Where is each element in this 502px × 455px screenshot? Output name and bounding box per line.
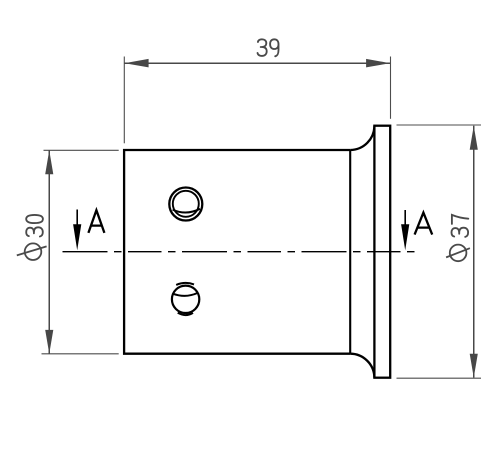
flange rectangle [374, 126, 390, 378]
tangent edge line at fillet start [349, 150, 351, 354]
bottom hole under arc [178, 313, 193, 315]
body outline (left edge, top edge, bottom edge) [124, 150, 350, 354]
dimension 39 extension line left [123, 57, 125, 144]
section label A left [88, 210, 104, 233]
dimension D37 extension line bottom [397, 377, 482, 379]
section arrow left head [73, 224, 81, 250]
dimension text D30 (rotated) [17, 215, 47, 260]
centerline (dash-dot axis) [63, 251, 418, 253]
top hole lower arc [173, 209, 200, 213]
dimension D30 extension line bottom [42, 353, 119, 355]
dimension D37 arrow up [470, 126, 478, 150]
top hole inner circle [173, 191, 199, 217]
dimension D37 arrow down [470, 354, 478, 378]
dimension 39 arrow left [125, 59, 149, 68]
bottom hole circle [172, 286, 199, 313]
dimension D30 arrow up [45, 150, 53, 174]
bottom fillet arc [350, 354, 374, 378]
bottom hole eyebrow arc [176, 283, 194, 285]
section arrow left stem [76, 210, 78, 233]
dimension D30 line [48, 150, 50, 353]
diameter symbol circle [25, 243, 42, 260]
dimension text 39 [258, 39, 279, 56]
dimension 39 line [125, 62, 391, 64]
diameter symbol slash [17, 246, 47, 255]
dimension 39 arrow right [366, 59, 390, 68]
section label A right [415, 213, 433, 235]
diameter symbol slash [446, 248, 470, 257]
dimension D30 extension line top [44, 149, 119, 151]
dimension D37 line [473, 126, 475, 378]
bottom hole inner arc [173, 293, 198, 296]
top fillet arc [350, 126, 374, 150]
dimension D37 extension line top [397, 124, 482, 126]
diameter symbol circle [450, 245, 467, 262]
section arrow right head [401, 224, 409, 250]
dimension D30 arrow down [45, 330, 53, 354]
section arrow right stem [404, 210, 406, 232]
dimension text D37 (rotated) [446, 215, 470, 261]
top hole outer circle [169, 188, 202, 221]
dimension 39 extension line right [390, 57, 392, 119]
